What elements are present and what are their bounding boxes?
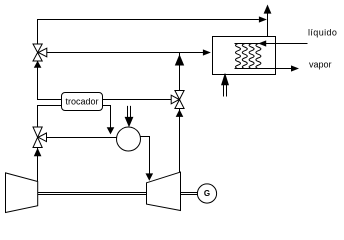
- wire coil bottom connector and vapor outlet: [235, 68, 292, 70]
- arrow flow up into valve V1: [34, 61, 42, 68]
- turbine T2 (right): [147, 172, 181, 211]
- label liquido: [308, 28, 337, 38]
- shaft turbine to generator (double line): [181, 193, 198, 195]
- generator G: [197, 184, 216, 203]
- turbine T1 (left): [6, 173, 38, 213]
- arrow flow up into valve V3: [176, 109, 184, 117]
- wire main extraction line from V1 to condenser: [47, 52, 203, 54]
- svg-text:trocador: trocador: [65, 97, 98, 107]
- wire trocador lower-right drain: [103, 106, 111, 129]
- arrow into condenser riser (right-pointing): [259, 16, 267, 22]
- valve V3 (three-way, mirrored): [171, 91, 184, 109]
- wire liquido inlet line: [259, 43, 308, 45]
- coil wavy tube 2: [242, 44, 247, 69]
- arrow liquido into coil (left-pointing): [258, 40, 266, 46]
- arrow discharge down into right turbine: [146, 173, 154, 180]
- wire feed line from valve V2 to pump: [47, 137, 117, 139]
- svg-text:líquido: líquido: [308, 28, 337, 38]
- coil wavy tube 1: [236, 44, 241, 69]
- pump P1: [117, 127, 141, 151]
- coil wavy tube 3: [249, 44, 254, 69]
- wire pump discharge to right turbine: [140, 137, 149, 175]
- wire below valve V2 down to left turbine: [37, 148, 39, 182]
- wire top header line from valve V1 up and right to condenser riser: [38, 20, 259, 45]
- arrow flow up into valve V2: [34, 148, 42, 156]
- wire trocador upper-right port to valve V3: [103, 99, 172, 101]
- valve V1 (three-way): [33, 44, 47, 61]
- wire below valve V1 down to trocador upper port: [38, 61, 62, 100]
- arrow vapor outlet (right-pointing): [291, 65, 299, 71]
- arrow drain down onto feed line: [107, 127, 115, 134]
- shaft between turbines (double line): [38, 193, 147, 195]
- pump top inlet double-shaft arrow: [125, 106, 134, 127]
- wire condenser riser vertical: [267, 14, 269, 37]
- condenser bottom feed double-shaft arrow: [221, 73, 229, 97]
- condenser vessel box: [213, 37, 276, 75]
- arrow flow up at junction: [175, 54, 184, 65]
- arrow vent up at top of riser: [264, 5, 272, 14]
- trocador heat exchanger box: [62, 93, 103, 111]
- wire riser from valve V3 up to main line: [179, 53, 181, 91]
- svg-text:vapor: vapor: [309, 60, 332, 70]
- svg-text:G: G: [204, 189, 210, 198]
- coil wavy tube 4: [256, 44, 261, 69]
- arrow into condenser left side (right-pointing): [203, 49, 211, 55]
- wire below valve V3 down to right turbine: [179, 109, 181, 173]
- valve V2 (three-way): [33, 127, 47, 148]
- wire trocador lower-left port down to valve V2: [38, 106, 62, 128]
- wire coil top connector: [235, 43, 259, 45]
- label vapor: [309, 60, 332, 70]
